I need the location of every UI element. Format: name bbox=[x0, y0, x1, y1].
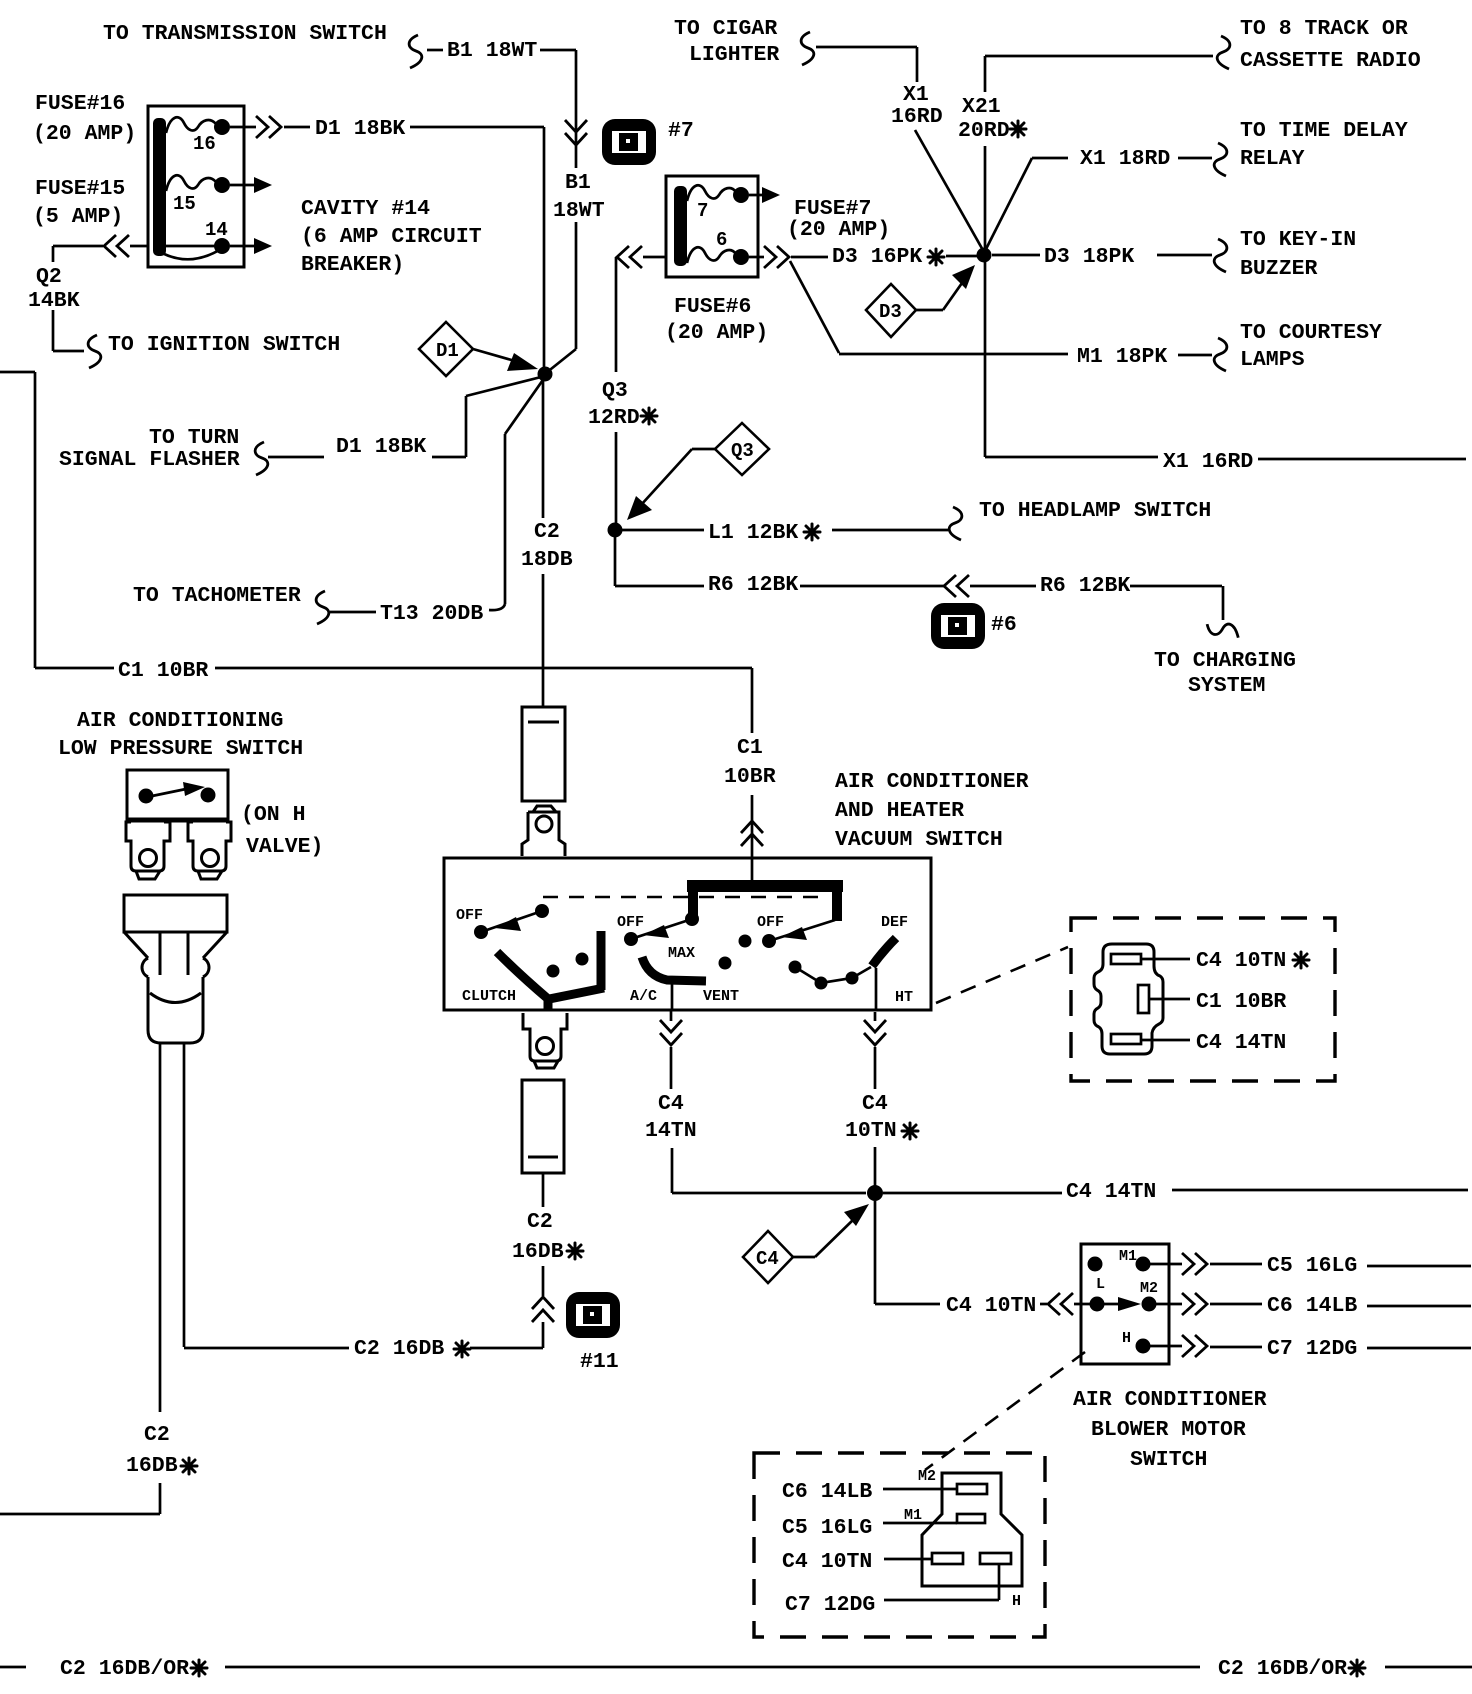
junction node C4 bbox=[867, 1185, 883, 1201]
svg-text:TO HEADLAMP SWITCH: TO HEADLAMP SWITCH bbox=[979, 499, 1211, 523]
diamond D3 bbox=[866, 284, 916, 337]
squiggle: to ignition switch bbox=[88, 335, 101, 368]
terminals bbox=[1088, 1257, 1103, 1272]
svg-text:AND HEATER: AND HEATER bbox=[835, 799, 964, 823]
thick bus bar bbox=[687, 886, 843, 921]
wire: R6 12BK to charging system bbox=[615, 535, 1223, 620]
svg-text:MAX: MAX bbox=[668, 945, 695, 962]
svg-text:TO TURN: TO TURN bbox=[149, 426, 239, 450]
svg-text:C6 14LB: C6 14LB bbox=[1267, 1294, 1357, 1318]
svg-text:C1: C1 bbox=[737, 736, 763, 760]
svg-text:FUSE#6: FUSE#6 bbox=[674, 295, 751, 319]
svg-text:C1 10BR: C1 10BR bbox=[1196, 990, 1286, 1014]
junction node D1 bbox=[538, 367, 553, 382]
svg-text:R6 12BK: R6 12BK bbox=[708, 573, 798, 597]
svg-text:TO CIGAR: TO CIGAR bbox=[674, 17, 777, 41]
fuse 6 element bbox=[687, 247, 740, 263]
svg-text:14: 14 bbox=[205, 219, 228, 241]
svg-text:H: H bbox=[1012, 1593, 1021, 1610]
connector chevron on B1 wire (down) bbox=[565, 120, 587, 145]
svg-text:16DB: 16DB bbox=[126, 1454, 178, 1478]
wire: D1 18BK down to junction bbox=[543, 127, 546, 372]
svg-text:C4 14TN: C4 14TN bbox=[1066, 1180, 1156, 1204]
svg-text:#7: #7 bbox=[668, 119, 694, 143]
harness cable bbox=[160, 1043, 184, 1412]
svg-text:6: 6 bbox=[716, 229, 727, 251]
svg-text:D3 18PK: D3 18PK bbox=[1044, 245, 1134, 269]
fuse 7 output arrow bbox=[749, 194, 766, 197]
svg-text:(6 AMP CIRCUIT: (6 AMP CIRCUIT bbox=[301, 225, 482, 249]
svg-text:18DB: 18DB bbox=[521, 548, 573, 572]
svg-text:TO 8 TRACK OR: TO 8 TRACK OR bbox=[1240, 17, 1408, 41]
svg-text:X1 18RD: X1 18RD bbox=[1080, 147, 1170, 171]
wire: D3 18PK to key-in buzzer bbox=[992, 254, 1212, 257]
svg-text:M2: M2 bbox=[918, 1468, 936, 1485]
svg-text:DEF: DEF bbox=[881, 914, 908, 931]
svg-text:AIR CONDITIONER: AIR CONDITIONER bbox=[1073, 1388, 1267, 1412]
fuse 15 element bbox=[166, 175, 221, 191]
squiggle: to 8 track bbox=[1217, 36, 1230, 69]
dashed common rail bbox=[543, 896, 829, 899]
diamond D1 bbox=[419, 322, 473, 376]
svg-text:C2 16DB/OR: C2 16DB/OR bbox=[1218, 1657, 1347, 1681]
switch terminal lug left bbox=[126, 822, 170, 879]
svg-text:OFF: OFF bbox=[456, 907, 483, 924]
svg-text:C4 10TN: C4 10TN bbox=[1196, 949, 1286, 973]
wire: L1 12BK to headlamp switch bbox=[622, 529, 948, 532]
svg-text:C4 10TN: C4 10TN bbox=[782, 1550, 872, 1574]
svg-text:VALVE): VALVE) bbox=[246, 835, 323, 859]
arrow from D1 diamond to junction bbox=[473, 349, 538, 371]
junction node D3/X1 bbox=[977, 248, 992, 263]
svg-text:OFF: OFF bbox=[617, 914, 644, 931]
svg-text:(20 AMP): (20 AMP) bbox=[665, 321, 768, 345]
svg-text:C2: C2 bbox=[144, 1423, 170, 1447]
svg-text:TO KEY-IN: TO KEY-IN bbox=[1240, 228, 1356, 252]
wire: C2 16DB horizontal bbox=[184, 1347, 543, 1350]
squiggle: to turn signal flasher bbox=[255, 442, 268, 475]
svg-text:(ON H: (ON H bbox=[241, 803, 306, 827]
svg-text:M1 18PK: M1 18PK bbox=[1077, 345, 1167, 369]
svg-text:16DB: 16DB bbox=[512, 1240, 564, 1264]
arrow from D3 diamond to junction bbox=[916, 309, 943, 312]
inline connector C2 18DB (rect) above switch bbox=[522, 707, 565, 801]
svg-text:C7 12DG: C7 12DG bbox=[1267, 1337, 1357, 1361]
svg-text:Q3: Q3 bbox=[602, 379, 628, 403]
svg-text:C6 14LB: C6 14LB bbox=[782, 1480, 872, 1504]
arrow from Q3 diamond to node bbox=[627, 449, 715, 520]
squiggle: to cigar lighter bbox=[801, 32, 814, 65]
svg-text:D3: D3 bbox=[879, 301, 902, 323]
svg-text:16: 16 bbox=[193, 133, 216, 155]
svg-text:X1 16RD: X1 16RD bbox=[1163, 450, 1253, 474]
wire: fuse 6 left to Q3 12RD bbox=[643, 256, 666, 259]
svg-text:TO IGNITION SWITCH: TO IGNITION SWITCH bbox=[108, 333, 340, 357]
grommet connector #6 bbox=[931, 603, 985, 649]
svg-text:Q2: Q2 bbox=[36, 265, 62, 289]
diamond C4 bbox=[743, 1231, 793, 1283]
connector plug on pressure switch harness bbox=[124, 895, 227, 1043]
inline connector below switch (tab) bbox=[523, 1013, 567, 1068]
switch terminal lug right bbox=[188, 822, 231, 879]
wire: C7 12DG bbox=[1150, 1346, 1471, 1348]
svg-text:18WT: 18WT bbox=[553, 199, 605, 223]
wire: X21 20RD to 8 track radio bbox=[985, 56, 1213, 254]
svg-text:B1 18WT: B1 18WT bbox=[447, 39, 537, 63]
svg-text:AIR CONDITIONER: AIR CONDITIONER bbox=[835, 770, 1029, 794]
fuse 7 element bbox=[687, 185, 740, 201]
svg-text:SWITCH: SWITCH bbox=[1130, 1448, 1207, 1472]
wire: C2 18DB from junction down bbox=[542, 377, 545, 707]
svg-text:BLOWER MOTOR: BLOWER MOTOR bbox=[1091, 1418, 1246, 1442]
wire: C6 14LB bbox=[1156, 1304, 1471, 1306]
svg-text:VENT: VENT bbox=[703, 988, 739, 1005]
svg-text:M2: M2 bbox=[1140, 1280, 1158, 1297]
inline connector below switch (rect) bbox=[522, 1080, 564, 1173]
pressure switch body bbox=[127, 770, 228, 820]
svg-text:14BK: 14BK bbox=[28, 289, 80, 313]
pin wires + labels bbox=[1141, 958, 1190, 961]
connector slots bbox=[957, 1484, 987, 1494]
svg-text:#6: #6 bbox=[991, 613, 1017, 637]
svg-text:FUSE#15: FUSE#15 bbox=[35, 177, 125, 201]
dashed leader to bottom detail bbox=[925, 1352, 1085, 1470]
dashed detail box bbox=[754, 1453, 1045, 1637]
squiggle: to charging system bbox=[1206, 620, 1241, 638]
fuse 15 output arrow bbox=[230, 184, 260, 187]
svg-text:10BR: 10BR bbox=[724, 765, 776, 789]
svg-text:CASSETTE RADIO: CASSETTE RADIO bbox=[1240, 49, 1421, 73]
svg-text:X1: X1 bbox=[903, 83, 929, 107]
svg-text:C2: C2 bbox=[534, 520, 560, 544]
squiggle: to transmission switch bbox=[409, 35, 422, 68]
svg-text:T13 20DB: T13 20DB bbox=[380, 602, 483, 626]
fuse 16 output wire D1 18BK bbox=[230, 126, 256, 129]
svg-text:LAMPS: LAMPS bbox=[1240, 348, 1305, 372]
svg-text:L1 12BK: L1 12BK bbox=[708, 521, 798, 545]
svg-text:C4 14TN: C4 14TN bbox=[1196, 1031, 1286, 1055]
svg-text:LOW PRESSURE SWITCH: LOW PRESSURE SWITCH bbox=[58, 737, 303, 761]
svg-text:D3 16PK: D3 16PK bbox=[832, 245, 922, 269]
wire: C2 16DB continues off page left bbox=[0, 1483, 160, 1514]
svg-text:C2: C2 bbox=[527, 1210, 553, 1234]
svg-text:C2 16DB/OR: C2 16DB/OR bbox=[60, 1657, 189, 1681]
svg-text:D1 18BK: D1 18BK bbox=[315, 117, 405, 141]
wire: C4 14TN to right edge bbox=[883, 1190, 1468, 1193]
wiper arrow bbox=[1118, 1297, 1141, 1311]
svg-text:AIR CONDITIONING: AIR CONDITIONING bbox=[77, 709, 283, 733]
svg-text:20RD: 20RD bbox=[958, 119, 1010, 143]
wire: D1 18BK to turn signal flasher bbox=[268, 376, 545, 457]
svg-text:C4: C4 bbox=[862, 1092, 888, 1116]
svg-text:10TN: 10TN bbox=[845, 1119, 897, 1143]
fuse 6 output wire D3 16PK bbox=[749, 256, 764, 259]
svg-text:C2 16DB: C2 16DB bbox=[354, 1337, 444, 1361]
wire: to transmission switch B1 18WT bbox=[427, 50, 576, 373]
svg-text:CAVITY #14: CAVITY #14 bbox=[301, 197, 430, 221]
svg-text:7: 7 bbox=[697, 200, 708, 222]
wire: C2 16DB below connector bbox=[542, 1173, 545, 1348]
svg-text:LIGHTER: LIGHTER bbox=[689, 43, 779, 67]
svg-text:(5 AMP): (5 AMP) bbox=[33, 205, 123, 229]
svg-text:B1: B1 bbox=[565, 171, 591, 195]
grommet connector #11 bbox=[566, 1292, 620, 1338]
svg-text:H: H bbox=[1122, 1330, 1131, 1347]
svg-text:SIGNAL FLASHER: SIGNAL FLASHER bbox=[59, 448, 240, 472]
svg-text:#11: #11 bbox=[580, 1350, 619, 1374]
svg-text:C4 10TN: C4 10TN bbox=[946, 1294, 1036, 1318]
svg-text:(20 AMP): (20 AMP) bbox=[33, 122, 136, 146]
svg-text:(20 AMP): (20 AMP) bbox=[787, 218, 890, 242]
wire: M1 18PK to courtesy lamps bbox=[790, 261, 1212, 355]
fuse block box bbox=[148, 106, 244, 267]
wire: C5 16LG bbox=[1150, 1264, 1471, 1266]
svg-text:C4: C4 bbox=[756, 1248, 779, 1270]
svg-text:RELAY: RELAY bbox=[1240, 147, 1305, 171]
svg-text:X21: X21 bbox=[962, 95, 1001, 119]
wire: C4 14TN from A/C port bbox=[671, 983, 866, 1193]
svg-text:A/C: A/C bbox=[630, 988, 657, 1005]
svg-text:M1: M1 bbox=[904, 1507, 922, 1524]
wire: C4 10TN to blower switch bbox=[875, 1201, 1095, 1304]
svg-text:15: 15 bbox=[173, 193, 196, 215]
squiggle: to tachometer bbox=[316, 591, 329, 624]
connector body (3-way) bbox=[1094, 944, 1163, 1054]
diamond Q3 bbox=[715, 423, 769, 475]
svg-text:HT: HT bbox=[895, 989, 913, 1006]
svg-text:R6 12BK: R6 12BK bbox=[1040, 574, 1130, 598]
svg-text:C5 16LG: C5 16LG bbox=[782, 1516, 872, 1540]
grommet connector #7 bbox=[602, 119, 656, 165]
svg-text:SYSTEM: SYSTEM bbox=[1188, 674, 1265, 698]
svg-text:16RD: 16RD bbox=[891, 105, 943, 129]
vacuum switch body bbox=[444, 858, 931, 1010]
svg-text:D1 18BK: D1 18BK bbox=[336, 435, 426, 459]
svg-text:12RD: 12RD bbox=[588, 406, 640, 430]
svg-text:TO TACHOMETER: TO TACHOMETER bbox=[133, 584, 301, 608]
fuse 16 element bbox=[166, 117, 221, 133]
wire: T13 20DB to tachometer bbox=[330, 377, 545, 612]
connector chevron on C1 wire (up) bbox=[741, 821, 763, 846]
svg-text:L: L bbox=[1096, 1276, 1105, 1293]
svg-text:14TN: 14TN bbox=[645, 1119, 697, 1143]
svg-text:OFF: OFF bbox=[757, 914, 784, 931]
connector body bbox=[922, 1473, 1022, 1586]
svg-text:TO COURTESY: TO COURTESY bbox=[1240, 321, 1382, 345]
svg-text:C5 16LG: C5 16LG bbox=[1267, 1254, 1357, 1278]
svg-text:TO TIME DELAY: TO TIME DELAY bbox=[1240, 119, 1408, 143]
wire: C4 10TN from HT port bbox=[874, 1012, 877, 1186]
wire: C1 10BR from left edge bbox=[0, 372, 752, 668]
fuse block bus bar bbox=[153, 118, 166, 256]
svg-text:C4: C4 bbox=[658, 1092, 684, 1116]
svg-text:BREAKER): BREAKER) bbox=[301, 253, 404, 277]
wire: X1 16RD to cigar lighter bbox=[816, 47, 984, 252]
svg-text:M1: M1 bbox=[1119, 1248, 1137, 1265]
svg-text:TO TRANSMISSION SWITCH: TO TRANSMISSION SWITCH bbox=[103, 22, 387, 46]
svg-text:Q3: Q3 bbox=[731, 440, 754, 462]
connector slots bbox=[1111, 954, 1141, 964]
svg-text:BUZZER: BUZZER bbox=[1240, 257, 1318, 281]
svg-text:FUSE#16: FUSE#16 bbox=[35, 92, 125, 116]
fuse block 7/6 box bbox=[666, 176, 758, 277]
svg-text:TO CHARGING: TO CHARGING bbox=[1154, 649, 1296, 673]
svg-text:VACUUM SWITCH: VACUUM SWITCH bbox=[835, 828, 1003, 852]
svg-text:CLUTCH: CLUTCH bbox=[462, 988, 516, 1005]
wire: C1 10BR down to vacuum switch bbox=[751, 668, 754, 886]
dashed leader from switch to detail bbox=[936, 947, 1068, 1003]
junction node Q3 bbox=[608, 523, 623, 538]
svg-text:C7 12DG: C7 12DG bbox=[785, 1593, 875, 1617]
clutch contact strip bbox=[497, 952, 604, 999]
arrow from C4 diamond to junction bbox=[793, 1204, 869, 1257]
bullet terminal above switch bbox=[522, 806, 565, 856]
wire: X1 18RD to time delay relay bbox=[984, 158, 1212, 253]
svg-text:C1 10BR: C1 10BR bbox=[118, 659, 208, 683]
wire: X1 16RD bottom run bbox=[985, 255, 1466, 459]
svg-text:D1: D1 bbox=[436, 340, 459, 362]
wire: Q2 14BK from cavity 14 to ignition switch bbox=[130, 245, 148, 248]
dashed detail box bbox=[1071, 918, 1335, 1081]
